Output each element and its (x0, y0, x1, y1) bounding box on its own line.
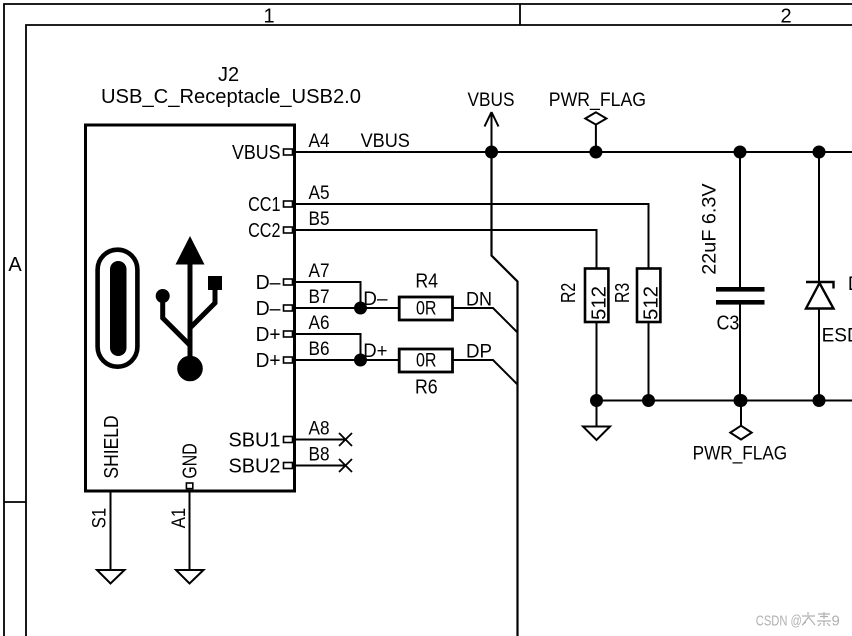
svg-text:DP: DP (466, 342, 492, 363)
svg-text:GND: GND (180, 443, 202, 478)
svg-text:CSDN @: CSDN @ (756, 613, 802, 630)
svg-text:2: 2 (780, 6, 791, 28)
pin D- B7 (256, 287, 330, 320)
junction diode bottom (813, 394, 826, 407)
svg-text:D+: D+ (363, 341, 387, 362)
svg-text:A: A (8, 254, 22, 276)
resistor R3 (612, 269, 662, 323)
svg-text:A6: A6 (309, 313, 330, 334)
svg-text:B8: B8 (309, 444, 330, 465)
wire VBUS drop to bus (492, 152, 518, 636)
wire B7 D- (296, 307, 399, 309)
svg-text:A4: A4 (309, 131, 330, 152)
pin CC1 A5 (248, 183, 329, 216)
svg-text:VBUS: VBUS (361, 131, 410, 152)
connector J2 body (86, 125, 295, 491)
ESD diode D (806, 152, 852, 401)
no-connect SBU1 wire (296, 439, 346, 441)
svg-text:R2: R2 (558, 283, 580, 303)
svg-text:ESD: ESD (822, 326, 852, 347)
resistor R2 (558, 269, 610, 323)
wire A6 to B6 (296, 334, 361, 360)
wire VBUS rail (296, 151, 852, 153)
no-connect X SBU2 (339, 459, 352, 472)
junction on B6 (354, 354, 367, 367)
USB trident icon (156, 236, 222, 381)
svg-text:A7: A7 (309, 261, 330, 282)
svg-text:D–: D– (256, 298, 282, 320)
junction R3 rail (642, 394, 655, 407)
junction R2 rail (590, 394, 603, 407)
junction diode top (813, 146, 826, 159)
svg-text:1: 1 (263, 6, 274, 28)
svg-text:D–: D– (256, 272, 282, 294)
svg-text:J2: J2 (218, 64, 239, 86)
power flag bottom (693, 401, 788, 465)
svg-text:SHIELD: SHIELD (101, 415, 123, 478)
pin VBUS A4 (232, 131, 330, 164)
wire DP (453, 360, 518, 385)
resistor R4 (399, 271, 452, 320)
wire CC1 (296, 204, 649, 269)
junction on B7 (354, 302, 367, 315)
svg-text:512: 512 (589, 286, 611, 320)
no-connect X SBU1 (339, 433, 352, 446)
svg-text:VBUS: VBUS (468, 90, 515, 111)
wire CC2 (296, 230, 597, 269)
svg-text:R4: R4 (415, 271, 438, 293)
svg-text:PWR_FLAG: PWR_FLAG (549, 90, 646, 111)
junction C3 bottom (734, 394, 747, 407)
svg-text:9: 9 (832, 613, 840, 630)
svg-text:B7: B7 (309, 287, 330, 308)
pin D- A7 (256, 261, 330, 294)
svg-text:D+: D+ (256, 350, 281, 372)
wire DN (453, 308, 518, 333)
svg-text:VBUS: VBUS (232, 142, 281, 164)
pin D+ B6 (256, 339, 330, 372)
wire R3 to rail (648, 322, 650, 401)
svg-text:0R: 0R (416, 350, 437, 371)
svg-text:R6: R6 (415, 377, 438, 399)
wire B6 D+ (296, 359, 399, 361)
pin CC2 B5 (248, 209, 329, 242)
junction PWR_FLAG bottom (735, 394, 748, 407)
svg-text:22uF 6.3V: 22uF 6.3V (700, 183, 721, 275)
wire A7 to B7 (296, 282, 361, 308)
watermark CSDN (756, 612, 840, 630)
svg-text:0R: 0R (416, 298, 437, 319)
svg-text:A5: A5 (309, 183, 330, 204)
svg-text:C3: C3 (717, 313, 740, 335)
svg-text:512: 512 (641, 286, 663, 320)
pin GND A1 (169, 443, 201, 528)
resistor R6 (399, 349, 452, 399)
ground symbol S1 (97, 570, 125, 584)
pin SBU1 A8 (229, 418, 330, 451)
svg-text:A1: A1 (169, 508, 190, 529)
svg-text:CC2: CC2 (248, 220, 280, 242)
capacitor C3 (700, 152, 765, 401)
svg-text:B5: B5 (309, 209, 330, 230)
svg-text:SBU2: SBU2 (229, 456, 281, 478)
USB-C connector icon (98, 250, 138, 367)
power symbol VBUS (468, 90, 515, 152)
power flag top (549, 90, 646, 152)
wire A1 to ground (189, 491, 191, 570)
junction C3 top (734, 146, 747, 159)
svg-text:S1: S1 (89, 508, 110, 529)
ground symbol A1 (176, 570, 204, 584)
wire R2 to rail (596, 322, 598, 401)
svg-text:D+: D+ (256, 324, 281, 346)
pin SHIELD S1 (89, 415, 123, 528)
pin SBU2 B8 (229, 444, 330, 477)
svg-text:CC1: CC1 (248, 194, 280, 216)
junction PWR_FLAG top (589, 146, 602, 159)
wire S1 to ground (110, 491, 112, 570)
svg-text:B6: B6 (309, 339, 330, 360)
pin D+ A6 (256, 313, 330, 346)
svg-text:PWR_FLAG: PWR_FLAG (693, 443, 788, 464)
junction VBUS rail (485, 146, 498, 159)
svg-text:DN: DN (466, 290, 492, 311)
svg-text:SBU1: SBU1 (229, 430, 281, 452)
ground symbol (583, 401, 610, 441)
wire GND rail (597, 400, 852, 402)
no-connect SBU2 wire (296, 465, 346, 467)
svg-text:R3: R3 (612, 283, 634, 303)
svg-text:D–: D– (363, 289, 388, 310)
svg-text:A8: A8 (309, 418, 330, 439)
svg-text:USB_C_Receptacle_USB2.0: USB_C_Receptacle_USB2.0 (101, 86, 361, 108)
svg-text:D: D (848, 274, 852, 295)
